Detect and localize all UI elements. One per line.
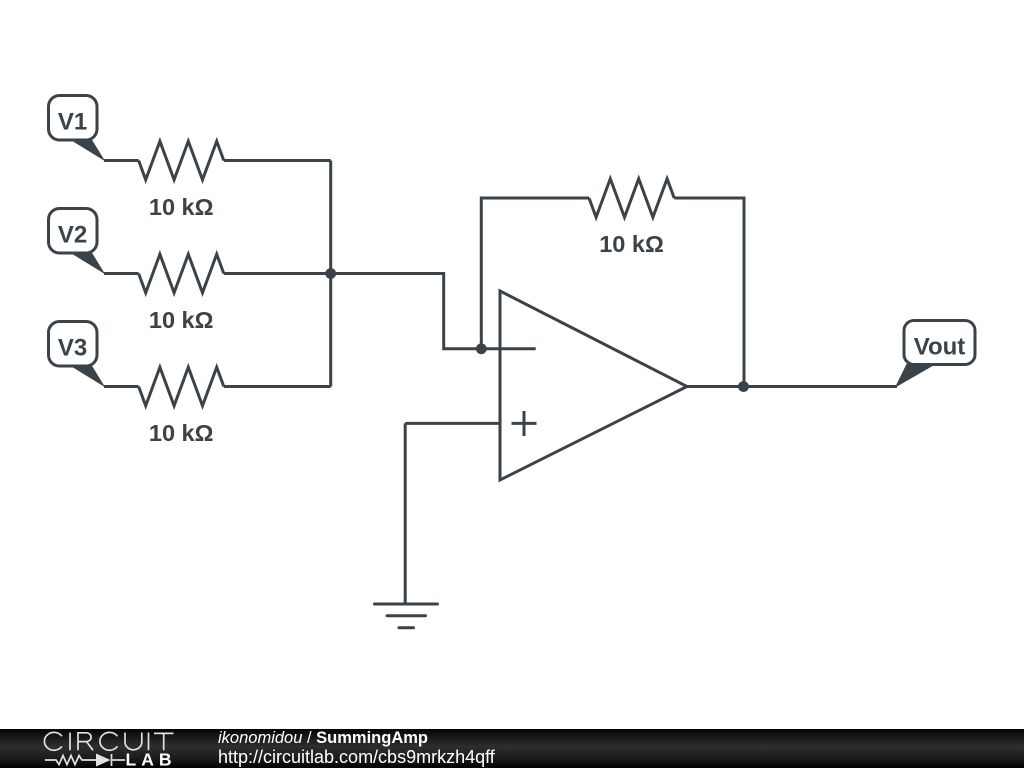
- svg-text:V1: V1: [58, 109, 87, 136]
- svg-text:LAB: LAB: [126, 750, 177, 768]
- svg-text:Vout: Vout: [914, 334, 966, 361]
- flag V3: [49, 322, 106, 388]
- op-amp U1 plus input symbol: [512, 411, 537, 436]
- wire R2 to bus: [224, 272, 331, 275]
- wire V2 lead: [104, 272, 139, 275]
- wire ground vertical: [404, 423, 407, 602]
- resistor R2: [139, 254, 224, 293]
- svg-text:10 kΩ: 10 kΩ: [149, 194, 214, 220]
- svg-text:V3: V3: [58, 335, 87, 362]
- resistor R1: [139, 141, 224, 180]
- wire feedback right vertical: [674, 198, 744, 387]
- op-amp U1: [500, 291, 687, 480]
- resistor R4 feedback: [589, 179, 674, 218]
- CircuitLab logo: [0, 729, 200, 768]
- wire output: [687, 385, 897, 388]
- svg-text:10 kΩ: 10 kΩ: [599, 231, 664, 257]
- footer author/title: [218, 729, 428, 748]
- footer url: [218, 747, 495, 768]
- node inverting input junction: [476, 343, 487, 354]
- wire V3 lead: [104, 385, 139, 388]
- flag V2: [49, 209, 106, 275]
- svg-text:V2: V2: [58, 222, 87, 249]
- wire R1 to bus: [224, 159, 331, 162]
- resistor R3: [139, 367, 224, 406]
- svg-text:10 kΩ: 10 kΩ: [149, 307, 214, 333]
- wire V1 lead: [104, 159, 139, 162]
- wire feedback left vertical: [481, 198, 589, 349]
- node output junction: [738, 381, 749, 392]
- flag Vout: [895, 321, 975, 388]
- svg-text:10 kΩ: 10 kΩ: [149, 420, 214, 446]
- footer bar: [0, 729, 1024, 768]
- ground: [375, 604, 438, 628]
- wire bus to inverting input: [331, 274, 536, 349]
- wire input bus vertical: [329, 161, 332, 387]
- wire R3 to bus: [224, 385, 331, 388]
- wire non-inverting lead: [405, 422, 500, 425]
- node bus junction: [325, 268, 336, 279]
- flag V1: [49, 96, 106, 162]
